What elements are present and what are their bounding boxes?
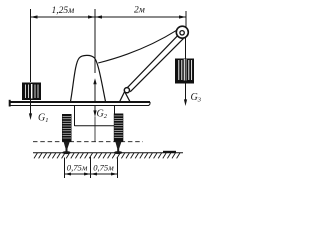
wheel right — [114, 114, 124, 155]
jib strut — [126, 34, 179, 89]
cable from cab to pulley — [98, 30, 177, 63]
wire dimension extension line right (x=186) — [185, 11, 187, 27]
wire dimension line 1.25m — [31, 16, 96, 18]
svg-text:0,75м: 0,75м — [93, 162, 114, 172]
counterweight block G1 — [22, 83, 41, 101]
ground hatch strokes — [34, 153, 180, 159]
crane cab dome — [71, 55, 106, 101]
wire lower extension lines — [64, 158, 66, 179]
bogie bracket — [74, 106, 76, 126]
force arrow G3 — [185, 84, 187, 101]
node CG arrow up inside cab — [93, 78, 96, 84]
wire dimension extension line left (x=30.5) — [30, 9, 32, 82]
jib base bracket — [120, 92, 130, 102]
wire dimension extension line centre (x=95) — [94, 9, 96, 73]
svg-text:G3: G3 — [191, 92, 202, 104]
svg-text:G2: G2 — [97, 108, 108, 120]
wheel left — [62, 114, 72, 154]
svg-text:G1: G1 — [38, 112, 48, 124]
load block G3 — [175, 59, 194, 84]
jib base pivot — [124, 88, 129, 93]
wire centre extension line through cab — [94, 84, 96, 102]
force arrow G1 — [30, 100, 32, 114]
pulley at jib head — [176, 26, 188, 38]
rope to load — [185, 37, 187, 62]
wire centre line below cab — [94, 117, 96, 143]
wire dimension line 0.75m right — [91, 173, 118, 175]
platform beam — [10, 101, 151, 103]
svg-text:2м: 2м — [134, 5, 145, 15]
dashed rail level line — [33, 141, 143, 143]
svg-text:1,25м: 1,25м — [52, 6, 75, 16]
svg-text:0,75м: 0,75м — [67, 162, 88, 172]
wire dimension line 2m — [95, 16, 186, 18]
ground surface line — [33, 152, 183, 153]
force arrow G2 — [94, 106, 96, 111]
wire dimension line 0.75m left — [65, 173, 91, 175]
